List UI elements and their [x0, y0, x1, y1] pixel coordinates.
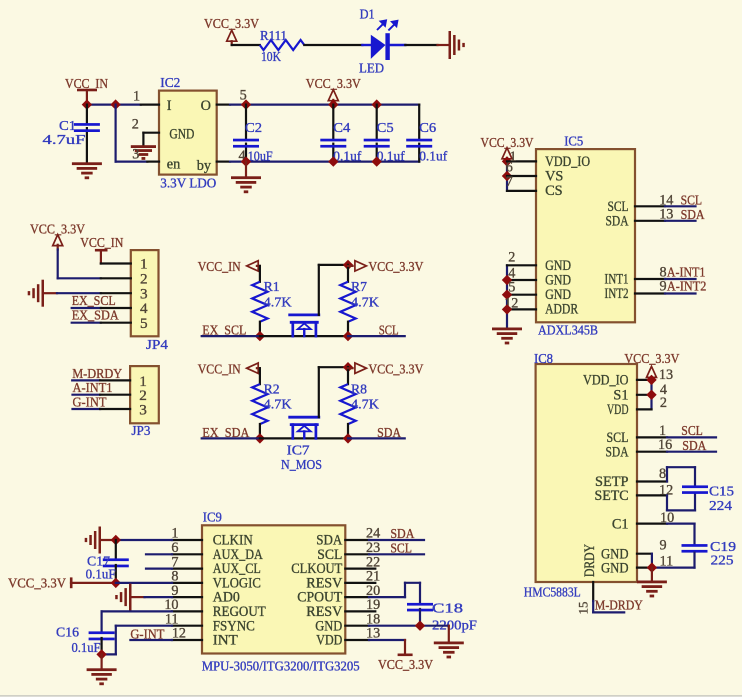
junction [111, 578, 121, 588]
svg-text:JP4: JP4 [146, 338, 168, 353]
wire to en pin [116, 105, 148, 162]
svg-text:SCL: SCL [681, 424, 703, 439]
capacitor C6 0.1uf [406, 105, 447, 165]
wire EX_SDA (JP4 pin5) [72, 322, 101, 324]
svg-text:225: 225 [711, 553, 734, 568]
svg-text:VDD: VDD [316, 633, 342, 649]
svg-text:R111: R111 [260, 29, 287, 44]
IC8 pin 1 SCL [637, 423, 667, 439]
svg-text:DRDY: DRDY [582, 544, 598, 577]
junction [111, 535, 121, 545]
wire C1 to C19 [667, 524, 695, 545]
svg-text:0.1uF: 0.1uF [86, 568, 116, 583]
IC8 pin 12 SETC [637, 483, 673, 499]
transistor designator IC7 N_MOS [281, 443, 322, 473]
IC8 pin 15 DRDY [576, 582, 594, 615]
svg-text:2: 2 [508, 250, 515, 266]
ground (IC5) [492, 328, 522, 345]
resistor R7 4.7K [340, 265, 379, 336]
IC9 pins left [172, 540, 202, 640]
svg-text:GND: GND [545, 258, 571, 274]
IC5 pin 1 VDD_IO [507, 149, 536, 165]
svg-text:MPU-3050/ITG3200/ITG3205: MPU-3050/ITG3200/ITG3205 [202, 660, 360, 675]
svg-text:LED: LED [359, 62, 384, 77]
power port VCC_IN (SDA row) [198, 362, 260, 377]
junction [502, 275, 512, 285]
junction [502, 171, 512, 181]
svg-text:M-DRDY: M-DRDY [595, 598, 643, 613]
svg-text:VCC_IN: VCC_IN [198, 260, 241, 275]
JP4 pins 1-5 [101, 264, 131, 323]
svg-text:INT: INT [213, 633, 238, 649]
wire 3.3V rail top [230, 103, 419, 105]
wire REGOUT to C16 [102, 611, 172, 632]
svg-text:A-INT2: A-INT2 [667, 279, 707, 294]
svg-text:C15: C15 [709, 485, 734, 500]
svg-text:1: 1 [133, 89, 140, 105]
wire IC5 power bus [506, 161, 508, 191]
capacitor C4 0.1uf [320, 105, 361, 165]
connector JP4 [131, 250, 168, 353]
junction [241, 99, 251, 109]
JP3 pins 1-3 [100, 380, 130, 409]
svg-text:3: 3 [139, 401, 147, 418]
svg-text:4.7K: 4.7K [264, 295, 292, 310]
svg-text:GND: GND [169, 127, 194, 143]
wire VLOGIC [116, 582, 172, 584]
svg-text:HMC5883L: HMC5883L [524, 585, 581, 600]
IC5 pin 8 INT1 [635, 265, 667, 281]
svg-text:4.7uF: 4.7uF [43, 133, 86, 148]
IC8 pin 11 GND [637, 553, 673, 569]
wire SDA [348, 437, 405, 439]
svg-text:9: 9 [660, 278, 667, 294]
IC8 pin 10 C1 [637, 510, 674, 526]
junction [343, 433, 353, 443]
wire / net label SDA (IC9) [369, 527, 424, 542]
junction [82, 99, 92, 109]
svg-text:IC8: IC8 [534, 352, 553, 367]
svg-text:R2: R2 [264, 382, 280, 397]
net label EX_SDA [72, 309, 120, 324]
wire gate to VCC_3.3V [319, 265, 348, 315]
junction [255, 331, 265, 341]
net label EX_SDA [202, 426, 250, 441]
wire SCL [348, 335, 405, 337]
wire JP4 pin3 [57, 292, 101, 294]
ground (below C2) [231, 162, 261, 194]
resistor R8 4.7K [340, 367, 379, 438]
ground (JP4 pin3) [28, 280, 57, 307]
svg-text:SCL: SCL [681, 194, 703, 209]
svg-text:R1: R1 [264, 280, 280, 295]
wire GND bus to C19 [652, 553, 695, 568]
svg-text:by: by [197, 158, 212, 174]
svg-text:SCL: SCL [390, 541, 412, 556]
net label G-INT [130, 628, 164, 643]
svg-text:IC7: IC7 [287, 443, 310, 458]
svg-text:VCC_3.3V: VCC_3.3V [368, 260, 423, 275]
IC5 pin 2 GND [507, 250, 536, 266]
junction [502, 304, 512, 314]
svg-text:VCC_3.3V: VCC_3.3V [368, 362, 423, 377]
svg-text:INT2: INT2 [605, 286, 629, 302]
IC8 power bus wire [650, 380, 652, 410]
svg-text:10K: 10K [261, 50, 281, 65]
pin 1 (I) [133, 89, 159, 105]
wire FSYNC down [102, 626, 172, 655]
junction [343, 260, 353, 270]
net label EX_SCL [202, 324, 246, 339]
capacitor C19 225 [682, 540, 737, 569]
svg-text:224: 224 [709, 499, 732, 514]
capacitor C2 10uF [233, 105, 273, 165]
junction [372, 156, 382, 166]
wire SETP-SETC loop [667, 467, 695, 510]
IC9 pins right (bare) [345, 569, 375, 612]
resistor R1 4.7K [252, 280, 291, 336]
wires to JP3 [72, 380, 100, 409]
svg-text:O: O [201, 98, 211, 114]
connector JP3 [130, 366, 159, 439]
ground (AD0) [115, 584, 144, 611]
wire GND (IC9 pin18) [369, 625, 449, 627]
capacitor C18 2200pF [407, 602, 477, 634]
ground (below C16) [87, 654, 117, 685]
svg-text:5: 5 [140, 315, 148, 332]
svg-text:C18: C18 [432, 602, 463, 617]
power port VCC_3.3V (JP4 pin2) [30, 223, 85, 250]
IC5 pin 12 ADDR [504, 296, 536, 312]
junction [646, 390, 656, 400]
power port VCC_3.3V (IC8) [624, 352, 679, 380]
wire VCC_IN to R1 [259, 266, 261, 282]
power port VCC_3.3V (SDA row) [348, 362, 423, 377]
power port VCC_3.3V (IC5) [481, 136, 534, 162]
svg-text:SDA: SDA [606, 444, 630, 460]
IC8 pin 8 SETP [637, 466, 667, 482]
svg-text:VCC_IN: VCC_IN [198, 362, 241, 377]
wire CPOUT to C18 [369, 583, 420, 604]
svg-text:0.1uf: 0.1uf [419, 149, 447, 164]
wire [232, 44, 260, 46]
svg-text:IC2: IC2 [160, 76, 180, 91]
svg-text:EX_SDA: EX_SDA [72, 309, 120, 324]
ground (IC9 GND) [434, 626, 464, 659]
svg-text:ADDR: ADDR [545, 302, 578, 318]
wires AUX_DA AUX_CL (bare) [146, 554, 172, 568]
ground (IC8) [637, 568, 667, 598]
capacitor C16 0.1uF [56, 625, 115, 656]
junction [96, 649, 106, 659]
ground (CLKIN) [85, 527, 101, 554]
svg-text:EX_SCL: EX_SCL [72, 294, 116, 309]
junction [343, 331, 353, 341]
svg-text:3.3V LDO: 3.3V LDO [160, 177, 216, 192]
wire / net label SCL (IC9) [369, 541, 424, 556]
wire AD0 [145, 596, 173, 598]
IC5 pin 14 SCL [635, 193, 673, 209]
junction [646, 375, 656, 385]
svg-text:VDD_IO: VDD_IO [583, 373, 629, 389]
ground (IC2 pin 2) [131, 145, 156, 160]
wire / net label SCL [665, 194, 702, 209]
svg-text:9: 9 [660, 538, 667, 554]
net label M-DRDY [595, 598, 643, 613]
svg-text:C6: C6 [419, 121, 436, 136]
wire G-INT (INT pin) [130, 639, 172, 641]
svg-text:VCC_3.3V: VCC_3.3V [204, 17, 259, 32]
IC5 pin 5 GND [507, 280, 536, 296]
junction [241, 156, 251, 166]
svg-text:10uF: 10uF [248, 149, 273, 164]
svg-text:I: I [167, 98, 172, 114]
junction [255, 433, 265, 443]
accelerometer IC5 body [536, 134, 635, 338]
wire / net label SCL [667, 424, 716, 439]
svg-text:2: 2 [132, 116, 139, 132]
net label EX_SCL [72, 294, 116, 309]
wire EX_SDA [202, 437, 260, 439]
svg-text:7: 7 [506, 174, 513, 190]
wire (mosfet channel) [260, 335, 348, 337]
svg-text:IC5: IC5 [564, 134, 583, 149]
svg-text:2: 2 [660, 395, 667, 411]
transistor N-MOS (SDA row) [290, 417, 319, 438]
power port VCC_3.3V (above C4) [306, 77, 361, 105]
svg-text:C16: C16 [56, 625, 79, 640]
magnetometer IC8 body [524, 352, 637, 601]
IC5 pin 13 SDA [635, 206, 673, 222]
svg-text:SDA: SDA [681, 208, 706, 223]
svg-text:GND: GND [601, 560, 629, 576]
svg-text:CS: CS [545, 183, 563, 199]
svg-text:C4: C4 [333, 121, 350, 136]
svg-text:IC9: IC9 [203, 511, 222, 526]
wire VCC_IN to R2 [259, 368, 261, 384]
IC5 pin 9 INT2 [635, 278, 667, 294]
transistor N-MOS (SCL row) [290, 315, 319, 336]
wire [405, 44, 437, 46]
junction [328, 156, 338, 166]
IC5 pin 6 VS [506, 160, 536, 177]
pin 4 (by) [217, 148, 246, 164]
svg-text:ADXL345B: ADXL345B [538, 324, 598, 339]
net label M-DRDY [72, 367, 122, 382]
power port VCC_3.3V (top, above R111) [204, 17, 259, 45]
svg-text:C2: C2 [245, 121, 262, 136]
junction [502, 290, 512, 300]
svg-text:N_MOS: N_MOS [281, 458, 322, 473]
svg-text:S1: S1 [613, 387, 628, 403]
power port VCC_IN (JP4 pin1) [80, 236, 123, 263]
wire EX_SCL (JP4 pin4) [72, 307, 101, 309]
svg-text:0.1uF: 0.1uF [72, 641, 101, 656]
capacitor C15 224 [682, 485, 734, 514]
wire CLKIN [101, 539, 172, 541]
svg-text:R8: R8 [351, 382, 367, 397]
svg-text:en: en [167, 157, 181, 173]
wire / net label SDA [665, 208, 705, 223]
svg-text:15: 15 [576, 602, 591, 615]
capacitor C1 4.7uF [43, 105, 100, 163]
net label SCL [379, 324, 399, 339]
gyroscope IC9 body [202, 511, 360, 675]
pin 5 (O) [217, 88, 247, 105]
svg-text:VCC_3.3V: VCC_3.3V [624, 352, 679, 367]
svg-text:4.7K: 4.7K [264, 398, 292, 413]
wire gate to VCC_3.3V [319, 367, 348, 417]
wire [304, 44, 362, 46]
svg-text:SETC: SETC [595, 488, 629, 504]
wire EX_SCL [202, 335, 260, 337]
power port VCC_IN (SCL row) [198, 260, 260, 275]
pin 2 (GND) [132, 116, 159, 145]
resistor R111 10K [260, 29, 305, 65]
svg-text:SDA: SDA [390, 527, 415, 542]
svg-text:SDA: SDA [682, 439, 707, 454]
bottom sheet border line [0, 695, 742, 696]
IC8 pin 9 GND [637, 538, 667, 554]
power port VCC_3.3V (SCL row) [348, 260, 423, 275]
net label SDA [377, 426, 402, 441]
junction [110, 99, 120, 109]
net label G-INT [73, 395, 107, 410]
junction [415, 621, 425, 631]
IC8 pin 2 VDD [637, 395, 667, 411]
svg-text:C1: C1 [59, 119, 76, 134]
svg-text:4.7K: 4.7K [351, 295, 379, 310]
regulator IC2 3.3V LDO [159, 76, 217, 192]
wire JP4 pin2 to VCC [58, 250, 101, 279]
svg-text:JP3: JP3 [131, 424, 150, 439]
ground (below C1) [72, 162, 102, 179]
power port VCC_IN (above C1) [65, 77, 108, 105]
LED D1 [359, 7, 405, 76]
wire (mosfet channel) [260, 437, 348, 439]
svg-text:VDD: VDD [607, 402, 629, 418]
pin 3 (en) [132, 147, 159, 163]
IC5 ground bus [506, 265, 508, 327]
IC8 pin 13 VDD_IO [637, 367, 673, 383]
svg-text:SDA: SDA [606, 213, 630, 229]
junction [372, 99, 382, 109]
junction [343, 362, 353, 372]
svg-text:3: 3 [132, 147, 139, 163]
ground (right of LED) [438, 31, 465, 59]
svg-text:C5: C5 [377, 121, 394, 136]
IC5 pin 7 CS [506, 174, 536, 191]
junction [328, 99, 338, 109]
power port VCC_3.3V (IC9 VDD) [369, 640, 433, 673]
wire M-DRDY [593, 601, 624, 612]
wire / net label A-INT2 [665, 279, 706, 294]
junction [502, 156, 512, 166]
wire / net label SDA [667, 439, 716, 454]
capacitor C5 0.1uf [364, 105, 405, 165]
svg-text:16: 16 [658, 437, 672, 453]
net label A-INT1 [73, 381, 113, 396]
svg-text:D1: D1 [360, 7, 375, 22]
svg-text:8: 8 [659, 466, 666, 482]
IC5 pin 4 GND [507, 266, 536, 282]
power port VCC_3.3V (VLOGIC) [8, 577, 116, 592]
junction [647, 562, 657, 572]
capacitor C17 0.1uF [86, 540, 129, 583]
svg-text:VCC_3.3V: VCC_3.3V [8, 577, 66, 592]
resistor R2 4.7K [252, 382, 291, 438]
wire VCC_IN rail [87, 103, 141, 105]
svg-text:13: 13 [659, 367, 673, 383]
IC8 pin 4 S1 [637, 382, 667, 398]
svg-text:VCC_3.3V: VCC_3.3V [378, 658, 433, 673]
IC8 pin 16 SDA [637, 437, 672, 453]
svg-text:C1: C1 [612, 516, 629, 532]
wire / net label A-INT1 [665, 266, 705, 281]
wire ground rail bottom [230, 161, 419, 163]
svg-text:4.7K: 4.7K [351, 398, 379, 413]
IC9 right pin numbers [366, 526, 380, 642]
IC9 left pin numbers [164, 526, 186, 642]
svg-text:R7: R7 [351, 280, 367, 295]
IC9 pins right (connected) [345, 540, 369, 640]
